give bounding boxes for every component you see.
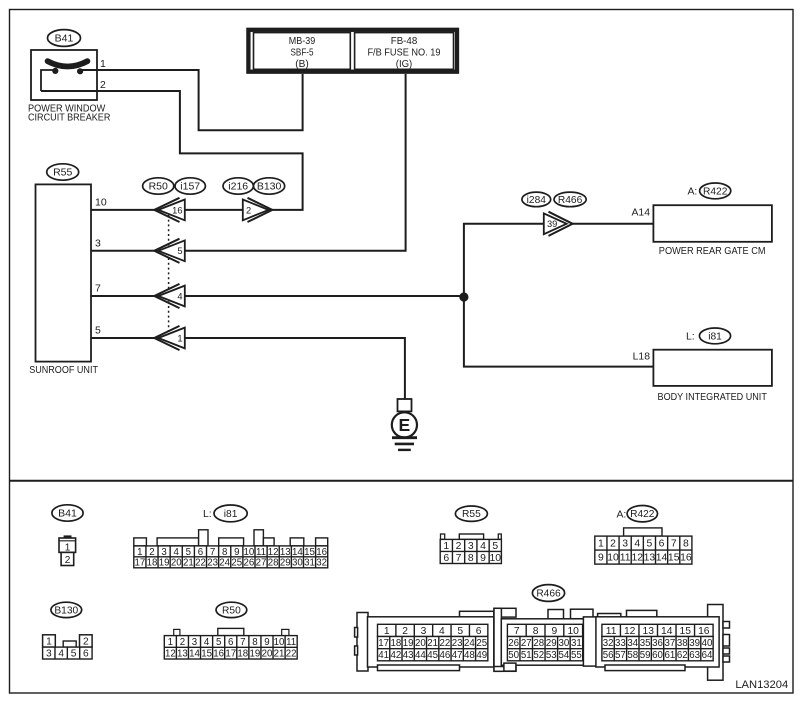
svg-text:12: 12 <box>632 553 644 564</box>
svg-text:6: 6 <box>476 626 482 637</box>
svg-text:30: 30 <box>558 638 569 649</box>
svg-text:3: 3 <box>95 238 101 250</box>
connector R55 pin grid <box>440 539 501 564</box>
connector label R422 (bottom) <box>627 506 657 522</box>
svg-text:6: 6 <box>443 553 449 564</box>
connector label B41 (bottom) <box>52 505 83 521</box>
in-line connector arrow 2 (i216/B130) <box>243 198 272 222</box>
svg-text:R422: R422 <box>630 509 655 520</box>
svg-text:20: 20 <box>415 638 426 649</box>
svg-text:BODY INTEGRATED UNIT: BODY INTEGRATED UNIT <box>658 392 768 403</box>
svg-text:F/B FUSE NO. 19: F/B FUSE NO. 19 <box>367 48 440 59</box>
svg-text:28: 28 <box>533 638 544 649</box>
connector B41 pinout <box>59 536 76 566</box>
svg-text:18: 18 <box>390 638 401 649</box>
svg-text:42: 42 <box>390 650 401 661</box>
in-line connector arrow 16 (R50/i157) <box>154 198 185 222</box>
svg-text:48: 48 <box>464 650 475 661</box>
wire: R55 pin5 to arrow 1 <box>91 337 155 339</box>
connector label R50 (top) <box>143 178 174 194</box>
svg-text:10: 10 <box>244 547 255 558</box>
svg-text:i81: i81 <box>224 509 238 520</box>
svg-text:1: 1 <box>384 626 390 637</box>
svg-text:32: 32 <box>316 558 327 569</box>
svg-text:A14: A14 <box>632 208 651 219</box>
connector R422 pin grid <box>595 536 692 564</box>
power rear gate cm box <box>653 205 772 242</box>
svg-text:5: 5 <box>177 246 182 256</box>
connector label R55 (bottom) <box>455 506 487 521</box>
svg-text:LAN13204: LAN13204 <box>735 679 788 691</box>
svg-text:3: 3 <box>46 649 52 660</box>
svg-text:i81: i81 <box>708 331 722 342</box>
svg-text:L:: L: <box>203 509 212 520</box>
svg-text:9: 9 <box>598 553 604 564</box>
svg-text:60: 60 <box>652 650 663 661</box>
in-line connector arrow 5 (R50/i157) <box>154 239 185 263</box>
connector i81 pin grid <box>134 546 328 569</box>
svg-text:7: 7 <box>95 283 101 295</box>
svg-text:9: 9 <box>234 547 239 558</box>
svg-text:7: 7 <box>514 626 520 637</box>
svg-text:53: 53 <box>546 650 557 661</box>
svg-text:17: 17 <box>225 649 236 660</box>
svg-text:13: 13 <box>644 553 656 564</box>
svg-text:35: 35 <box>640 638 651 649</box>
svg-text:2: 2 <box>100 79 106 91</box>
svg-text:24: 24 <box>219 558 230 569</box>
connector R50 pin grid <box>164 636 297 660</box>
svg-text:30: 30 <box>292 558 303 569</box>
svg-text:16: 16 <box>316 547 327 558</box>
svg-text:B41: B41 <box>55 33 74 45</box>
wire: arrow 1 to ground <box>185 338 405 400</box>
svg-text:49: 49 <box>476 650 487 661</box>
svg-text:22: 22 <box>440 638 451 649</box>
connector label R55 (top) <box>47 164 79 180</box>
svg-text:4: 4 <box>439 626 445 637</box>
svg-text:8: 8 <box>252 637 257 648</box>
svg-text:12: 12 <box>624 626 636 637</box>
svg-text:41: 41 <box>378 650 389 661</box>
svg-text:6: 6 <box>198 547 203 558</box>
svg-text:A:: A: <box>617 510 627 521</box>
ground connector square <box>398 399 412 411</box>
svg-text:3: 3 <box>192 637 197 648</box>
in-line connector arrow 39 (i284/R466) <box>544 212 573 236</box>
svg-text:6: 6 <box>659 539 665 550</box>
connector label B130 (top) <box>254 178 285 194</box>
svg-text:54: 54 <box>558 650 569 661</box>
svg-text:1: 1 <box>46 637 52 648</box>
svg-text:39: 39 <box>547 219 557 229</box>
svg-text:4: 4 <box>58 649 64 660</box>
svg-text:31: 31 <box>304 558 315 569</box>
svg-text:15: 15 <box>668 553 680 564</box>
svg-text:15: 15 <box>304 547 315 558</box>
svg-text:2: 2 <box>456 541 462 552</box>
svg-text:i157: i157 <box>180 181 200 193</box>
svg-text:11: 11 <box>606 626 617 637</box>
svg-text:R50: R50 <box>222 605 241 616</box>
svg-text:SUNROOF UNIT: SUNROOF UNIT <box>29 365 98 376</box>
svg-text:15: 15 <box>201 649 212 660</box>
svg-text:64: 64 <box>702 650 713 661</box>
svg-text:47: 47 <box>452 650 463 661</box>
wire: R55 pin7 to arrow 4 <box>91 295 155 297</box>
svg-text:10: 10 <box>607 553 619 564</box>
svg-text:20: 20 <box>171 558 182 569</box>
connector label i216 (top) <box>223 178 253 194</box>
svg-text:29: 29 <box>280 558 291 569</box>
svg-text:1: 1 <box>100 58 106 70</box>
svg-text:7: 7 <box>210 547 215 558</box>
svg-text:17: 17 <box>134 558 145 569</box>
svg-text:2: 2 <box>83 637 89 648</box>
svg-text:R55: R55 <box>53 167 72 179</box>
svg-text:5: 5 <box>457 626 463 637</box>
svg-text:MB-39: MB-39 <box>289 36 316 47</box>
svg-text:1: 1 <box>177 333 182 343</box>
breaker internal wire <box>41 70 56 91</box>
svg-text:R466: R466 <box>558 195 583 206</box>
svg-text:L18: L18 <box>633 352 651 363</box>
svg-text:39: 39 <box>689 638 700 649</box>
svg-text:21: 21 <box>427 638 438 649</box>
svg-text:33: 33 <box>615 638 626 649</box>
svg-text:13: 13 <box>177 649 188 660</box>
svg-text:18: 18 <box>237 649 248 660</box>
svg-text:9: 9 <box>552 626 558 637</box>
svg-text:17: 17 <box>378 638 389 649</box>
svg-text:14: 14 <box>656 553 668 564</box>
svg-text:50: 50 <box>508 650 519 661</box>
svg-text:L:: L: <box>686 332 695 343</box>
svg-text:7: 7 <box>456 553 462 564</box>
connector label R466 (bottom) <box>532 585 564 602</box>
in-line connector arrow 1 (R50/i157) <box>154 326 185 350</box>
svg-text:46: 46 <box>440 650 451 661</box>
svg-text:52: 52 <box>533 650 544 661</box>
connector B130 pinout <box>43 635 93 648</box>
svg-text:9: 9 <box>480 553 486 564</box>
svg-text:59: 59 <box>640 650 651 661</box>
svg-text:i284: i284 <box>527 195 547 206</box>
svg-text:43: 43 <box>403 650 414 661</box>
svg-text:6: 6 <box>83 649 89 660</box>
svg-text:3: 3 <box>622 539 628 550</box>
svg-text:E: E <box>399 415 411 435</box>
svg-text:B130: B130 <box>257 181 282 193</box>
svg-text:R422: R422 <box>703 186 728 197</box>
svg-text:R466: R466 <box>536 589 561 600</box>
svg-text:2: 2 <box>246 205 251 215</box>
connector label i81 (bottom) <box>214 505 247 522</box>
connector R466 group 3 cells <box>602 624 713 637</box>
wire: breaker pin2 down to row1 <box>41 91 303 210</box>
svg-text:(IG): (IG) <box>396 59 413 70</box>
connector label i81 (top) <box>699 328 730 344</box>
circuit breaker bimetal element <box>48 61 88 66</box>
svg-text:29: 29 <box>546 638 557 649</box>
svg-text:16: 16 <box>698 626 710 637</box>
svg-text:34: 34 <box>627 638 638 649</box>
svg-text:24: 24 <box>464 638 475 649</box>
connector label R50 (bottom) <box>216 602 247 617</box>
svg-text:22: 22 <box>286 649 297 660</box>
svg-text:10: 10 <box>489 553 501 564</box>
connector R466 group 1 cells <box>378 624 488 637</box>
svg-text:27: 27 <box>256 558 267 569</box>
wire: R55 pin10 to connector arrow 16 <box>91 209 155 211</box>
svg-text:26: 26 <box>244 558 255 569</box>
svg-text:4: 4 <box>177 291 182 301</box>
breaker contact dots <box>52 68 58 74</box>
connector R50 housing tabs <box>174 629 180 635</box>
fuse MB-39 SBF-5 (B) box <box>254 33 351 70</box>
svg-text:21: 21 <box>274 649 285 660</box>
svg-text:16: 16 <box>172 205 182 215</box>
connector i81 housing tabs <box>134 538 147 546</box>
svg-text:4: 4 <box>204 637 210 648</box>
svg-text:A:: A: <box>688 187 698 198</box>
svg-text:i216: i216 <box>228 181 248 193</box>
svg-text:3: 3 <box>468 541 474 552</box>
connector R466 group 2 cells <box>507 624 582 637</box>
svg-text:51: 51 <box>521 650 532 661</box>
svg-text:19: 19 <box>159 558 170 569</box>
svg-text:14: 14 <box>661 626 673 637</box>
svg-text:62: 62 <box>677 650 688 661</box>
svg-text:18: 18 <box>147 558 158 569</box>
svg-text:1: 1 <box>443 541 449 552</box>
wire: junction down to L18 <box>464 297 654 367</box>
svg-text:12: 12 <box>268 547 279 558</box>
svg-text:14: 14 <box>189 649 200 660</box>
connector label B130 (bottom) <box>51 602 82 617</box>
svg-text:21: 21 <box>183 558 194 569</box>
svg-text:8: 8 <box>222 547 227 558</box>
svg-text:63: 63 <box>689 650 700 661</box>
svg-text:5: 5 <box>95 325 101 337</box>
svg-text:13: 13 <box>280 547 291 558</box>
svg-text:B130: B130 <box>54 605 78 616</box>
svg-text:2: 2 <box>180 637 185 648</box>
svg-text:25: 25 <box>476 638 487 649</box>
svg-text:6: 6 <box>228 637 233 648</box>
svg-text:55: 55 <box>571 650 582 661</box>
svg-text:1: 1 <box>137 547 142 558</box>
svg-text:2: 2 <box>65 555 71 566</box>
wire: junction up to arrow 39 <box>464 224 544 297</box>
svg-text:4: 4 <box>480 541 486 552</box>
svg-text:12: 12 <box>165 649 176 660</box>
svg-text:CIRCUIT BREAKER: CIRCUIT BREAKER <box>28 113 111 124</box>
wire: FB-48 (IG) down to row2 <box>185 74 406 251</box>
svg-text:37: 37 <box>664 638 675 649</box>
svg-text:25: 25 <box>231 558 242 569</box>
svg-text:1: 1 <box>168 637 173 648</box>
power window circuit breaker box B41 <box>31 50 97 100</box>
svg-text:4: 4 <box>634 539 640 550</box>
connector R466 housing <box>355 605 730 681</box>
connector label R466 (top) <box>554 192 586 207</box>
wire: arrow 39 to A14 <box>573 223 654 225</box>
wire: arrow 4 to junction <box>185 295 464 297</box>
ground symbol E <box>392 412 417 437</box>
connector label R422 (top) <box>700 183 731 199</box>
body integrated unit box <box>653 350 772 386</box>
svg-text:R55: R55 <box>462 509 481 520</box>
svg-text:4: 4 <box>174 547 180 558</box>
wire: R55 pin3 to arrow 5 <box>91 250 155 252</box>
svg-text:7: 7 <box>240 637 245 648</box>
separator line <box>10 480 793 482</box>
svg-text:FB-48: FB-48 <box>391 36 418 47</box>
connector B130 lower row <box>43 647 92 660</box>
svg-text:1: 1 <box>65 542 71 553</box>
svg-text:40: 40 <box>702 638 713 649</box>
ground hatch lines <box>392 436 417 439</box>
svg-text:23: 23 <box>452 638 463 649</box>
svg-text:19: 19 <box>403 638 414 649</box>
svg-text:10: 10 <box>274 637 285 648</box>
svg-text:5: 5 <box>71 649 77 660</box>
in-line connector arrow 4 (R50/i157) <box>154 284 185 308</box>
svg-text:B41: B41 <box>58 508 77 520</box>
dashed connector link line <box>168 210 170 338</box>
svg-text:5: 5 <box>647 539 653 550</box>
svg-text:1: 1 <box>598 539 604 550</box>
svg-text:8: 8 <box>533 626 539 637</box>
sunroof unit box R55 <box>36 184 92 361</box>
connector R422 housing tab <box>624 528 662 536</box>
svg-text:26: 26 <box>508 638 519 649</box>
svg-text:3: 3 <box>421 626 427 637</box>
svg-text:(B): (B) <box>295 59 309 70</box>
svg-text:10: 10 <box>95 197 107 209</box>
svg-text:9: 9 <box>264 637 269 648</box>
svg-text:3: 3 <box>161 547 166 558</box>
svg-text:57: 57 <box>615 650 626 661</box>
svg-text:32: 32 <box>603 638 614 649</box>
svg-text:11: 11 <box>256 547 266 558</box>
svg-text:11: 11 <box>286 637 296 648</box>
svg-text:POWER REAR GATE CM: POWER REAR GATE CM <box>659 246 766 257</box>
svg-text:45: 45 <box>427 650 438 661</box>
connector label i157 (top) <box>175 178 205 194</box>
fuse FB-48 F/B FUSE NO. 19 (IG) box <box>355 33 454 70</box>
svg-text:SBF-5: SBF-5 <box>291 48 314 59</box>
svg-text:19: 19 <box>250 649 261 660</box>
svg-text:5: 5 <box>186 547 191 558</box>
svg-text:13: 13 <box>642 626 654 637</box>
svg-text:38: 38 <box>677 638 688 649</box>
svg-text:28: 28 <box>268 558 279 569</box>
connector label i284 <box>522 192 551 207</box>
svg-text:14: 14 <box>292 547 303 558</box>
svg-text:31: 31 <box>571 638 582 649</box>
fuse block outer (MB-39 / FB-48) <box>248 30 457 72</box>
svg-text:44: 44 <box>415 650 426 661</box>
svg-text:36: 36 <box>652 638 663 649</box>
svg-text:58: 58 <box>627 650 638 661</box>
svg-text:56: 56 <box>603 650 614 661</box>
svg-text:11: 11 <box>620 553 631 564</box>
svg-text:23: 23 <box>207 558 218 569</box>
junction node <box>459 292 468 301</box>
wire: breaker pin1 to MB-39 (B) <box>80 70 303 130</box>
svg-text:8: 8 <box>683 539 689 550</box>
svg-text:27: 27 <box>521 638 532 649</box>
svg-text:15: 15 <box>680 626 692 637</box>
svg-text:5: 5 <box>492 541 498 552</box>
connector label B41 (top) <box>48 30 81 47</box>
svg-text:22: 22 <box>195 558 206 569</box>
connector R55 housing tabs <box>441 534 445 539</box>
svg-text:61: 61 <box>664 650 675 661</box>
svg-text:10: 10 <box>567 626 579 637</box>
svg-text:7: 7 <box>671 539 677 550</box>
wire: arrow 16 to arrow 2 <box>185 209 243 211</box>
svg-text:2: 2 <box>149 547 154 558</box>
svg-text:2: 2 <box>610 539 616 550</box>
svg-text:2: 2 <box>402 626 408 637</box>
svg-text:16: 16 <box>680 553 692 564</box>
svg-text:R50: R50 <box>149 181 168 193</box>
svg-text:20: 20 <box>262 649 273 660</box>
svg-text:16: 16 <box>213 649 224 660</box>
svg-text:5: 5 <box>216 637 221 648</box>
svg-text:8: 8 <box>468 553 474 564</box>
